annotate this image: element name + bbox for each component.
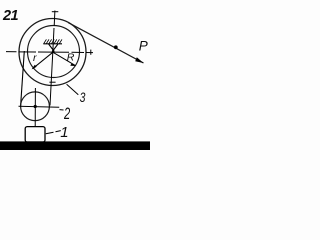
centerline tick below drum [49,81,55,83]
pivot pin [52,50,55,53]
pulley vertical centerline / cord to weight [34,88,36,127]
leader of label 3 [67,84,79,95]
black scan border at bottom [0,141,150,150]
svg-text:R: R [67,52,75,64]
rope with force P tangent to drum [68,23,143,63]
centerline end tick (right) [90,50,92,55]
support hatching [44,39,62,43]
support triangle [49,44,58,50]
fixed support hatched bar [43,43,62,45]
radius r arrow [33,52,53,68]
svg-text:r: r [33,52,37,64]
left cord from drum to pulley [21,51,25,106]
pulley (item 2) [21,92,50,121]
weight (item 1) [25,127,45,142]
leader of label 1 [46,131,61,134]
arrowhead of P [135,57,143,63]
pulley axle dot [34,105,37,108]
vertical centerline of drum / cord to pulley right side [50,11,55,106]
svg-text:2: 2 [63,104,70,123]
svg-text:1: 1 [60,124,68,141]
drum outer circle (radius R), item 3 [19,19,86,86]
horizontal centerline of drum [6,52,93,53]
leader of label 2 [60,109,64,111]
point on rope [114,45,118,49]
svg-text:3: 3 [80,89,86,105]
pulley horizontal centerline [19,106,60,107]
drum inner circle (radius r) [28,26,80,78]
svg-text:21: 21 [2,8,18,24]
radius R arrow [53,52,75,65]
svg-text:P: P [139,39,148,54]
centerline top tick [52,11,59,13]
